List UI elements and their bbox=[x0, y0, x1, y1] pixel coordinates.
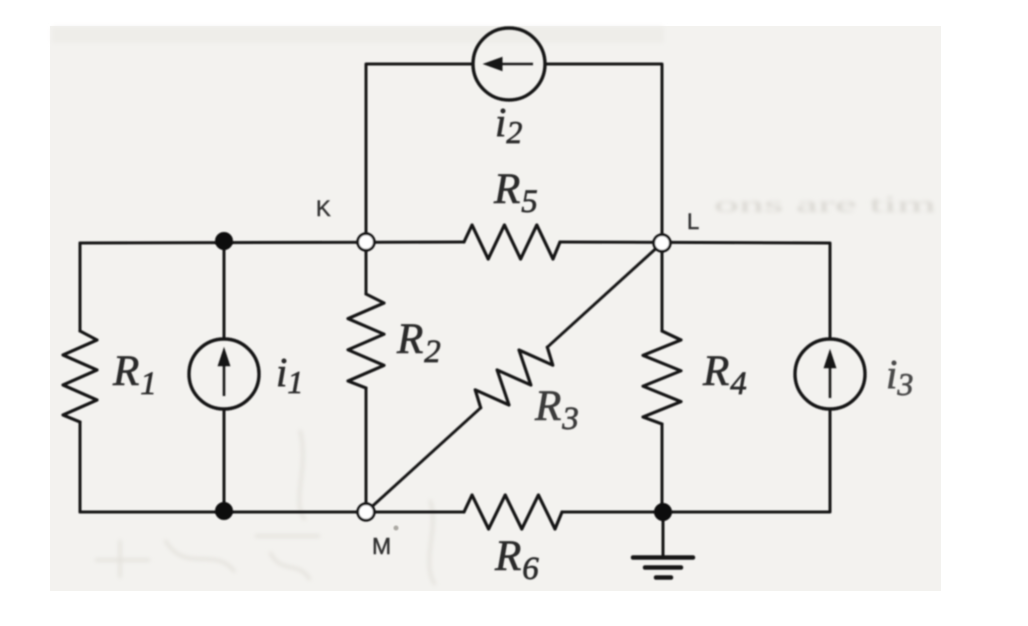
svg-text:ons are tim: ons are tim bbox=[714, 192, 936, 217]
svg-text:M: M bbox=[372, 533, 391, 559]
svg-text:L: L bbox=[687, 209, 699, 234]
svg-text:K: K bbox=[316, 196, 331, 221]
